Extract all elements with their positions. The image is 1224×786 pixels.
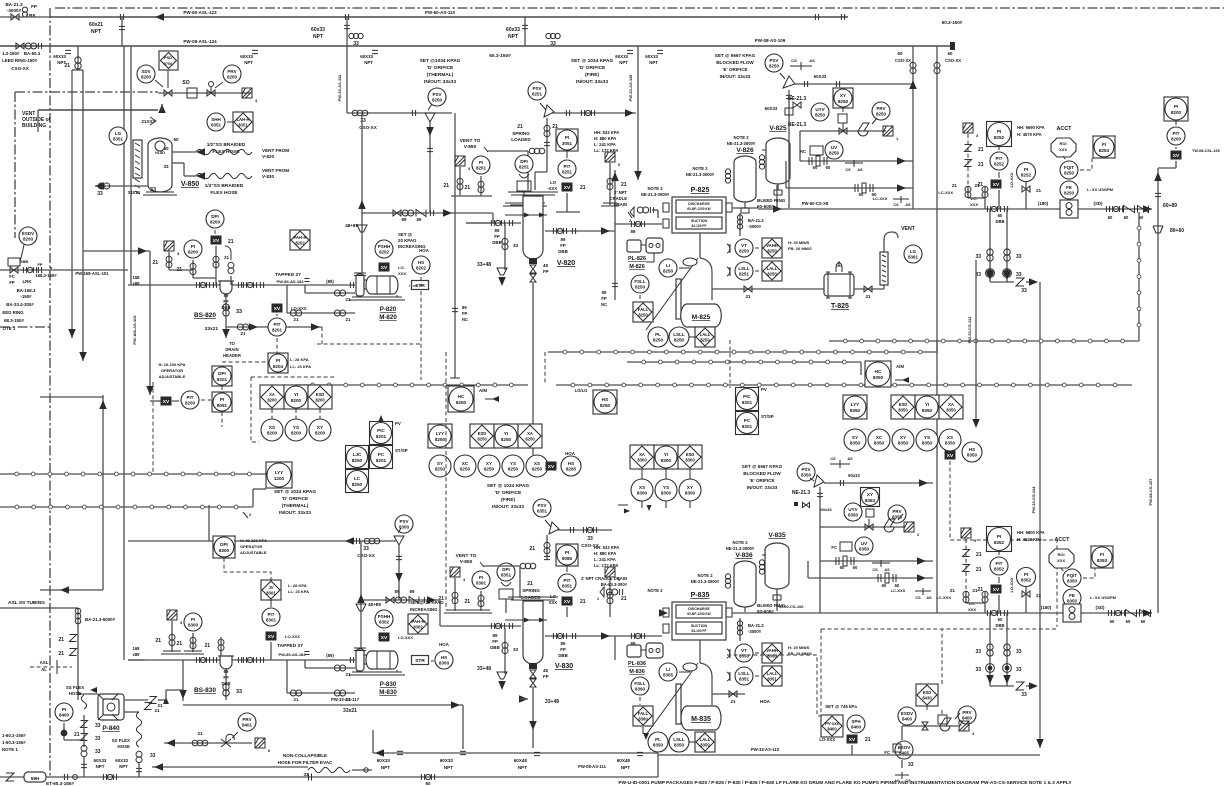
- instrument YS-8300: [655, 479, 677, 501]
- svg-text:LALL: LALL: [700, 737, 711, 742]
- wire vertical x83: [82, 70, 84, 361]
- svg-text:V-820: V-820: [557, 260, 575, 267]
- svg-text:21: 21: [154, 708, 160, 713]
- svg-text:8350: 8350: [850, 408, 861, 413]
- instrument UV-8250: [825, 141, 843, 159]
- svg-text:33: 33: [97, 191, 103, 197]
- svg-text:33+48: 33+48: [477, 666, 491, 672]
- instrument PIT-8252: [990, 152, 1008, 170]
- svg-text:XY: XY: [687, 485, 693, 490]
- instrument PIT-8201: [268, 318, 286, 336]
- svg-text:BA-60.3: BA-60.3: [24, 51, 41, 56]
- svg-text:L: XX USGPM: L: XX USGPM: [1087, 187, 1114, 192]
- svg-text:V-850: V-850: [464, 144, 477, 150]
- svg-text:60: 60: [425, 781, 431, 786]
- instrument SY-8350: [844, 429, 866, 451]
- svg-text:21: 21: [580, 599, 586, 605]
- svg-text:XS: XS: [534, 461, 540, 466]
- svg-text:8400: 8400: [59, 713, 70, 718]
- svg-text:•: •: [50, 266, 52, 272]
- svg-text:HH: 6690 KPA: HH: 6690 KPA: [1017, 125, 1045, 130]
- svg-text:8393: 8393: [1097, 558, 1108, 563]
- svg-text:SET @ 745 kPa: SET @ 745 kPa: [825, 704, 857, 709]
- svg-text:BLOCKED FLOW: BLOCKED FLOW: [743, 471, 781, 476]
- svg-text:V-830: V-830: [262, 174, 274, 179]
- svg-text:21: 21: [978, 147, 984, 153]
- wire stub left y17: [0, 16, 50, 18]
- svg-text:XXX: XXX: [1057, 558, 1065, 563]
- svg-text:8250: 8250: [829, 151, 840, 156]
- svg-text:SET @ 20 KPAG: SET @ 20 KPAG: [410, 600, 444, 605]
- svg-text:PW-33-AS-112: PW-33-AS-112: [337, 74, 342, 102]
- svg-text:PW-60-CS-X8: PW-60-CS-X8: [802, 201, 829, 206]
- checks NN y613: [1126, 610, 1137, 617]
- svg-text:8250: 8250: [435, 467, 446, 472]
- svg-text:8200: 8200: [315, 431, 326, 436]
- fitting NPT tick: [627, 50, 633, 53]
- svg-text:89: 89: [631, 229, 636, 234]
- wire vertical x72: [71, 70, 73, 338]
- svg-text:ET-60.3-150#: ET-60.3-150#: [46, 781, 74, 786]
- svg-text:60X33: 60X33: [360, 54, 373, 59]
- svg-text:5706: 5706: [164, 62, 172, 66]
- svg-text:89: 89: [602, 290, 607, 295]
- svg-text:TAPPED 27: TAPPED 27: [277, 643, 303, 649]
- svg-text:LOADED: LOADED: [511, 137, 531, 142]
- svg-text:XXX: XXX: [970, 202, 978, 207]
- svg-text:LO-XXX: LO-XXX: [1009, 172, 1014, 187]
- svg-text:PI: PI: [220, 397, 224, 402]
- svg-text:21: 21: [58, 651, 64, 657]
- svg-text:NON-COLLAPSIBLE: NON-COLLAPSIBLE: [283, 753, 327, 758]
- pipe vertical PW-33-AS-115: [637, 46, 639, 180]
- svg-text:21: 21: [621, 182, 627, 188]
- svg-text:33x21: 33x21: [205, 326, 219, 332]
- svg-text:PW-168-ASL-101: PW-168-ASL-101: [75, 271, 109, 276]
- instrument HC-8250: [448, 386, 474, 412]
- svg-text:PW-33-AS-110: PW-33-AS-110: [751, 747, 780, 752]
- svg-text:8252: 8252: [994, 162, 1005, 167]
- pump recirc lines: [305, 667, 355, 669]
- svg-text:FP: FP: [543, 674, 549, 679]
- svg-text:33: 33: [1016, 272, 1022, 278]
- svg-text:SS FLEX: SS FLEX: [112, 738, 130, 743]
- svg-text:LO/LG: LO/LG: [575, 388, 588, 393]
- pipe vertical x455 NC: [454, 113, 456, 378]
- svg-text:AS: AS: [884, 568, 890, 572]
- svg-text:VENT TO: VENT TO: [460, 138, 481, 144]
- svg-text:XV: XV: [993, 182, 1000, 188]
- svg-text:NPT: NPT: [91, 29, 101, 35]
- svg-text:8351: 8351: [113, 137, 124, 142]
- svg-text:V-850: V-850: [460, 559, 473, 565]
- svg-text:H: 4520 KPA: H: 4520 KPA: [1017, 537, 1042, 542]
- pipe PRV-8401 line y743: [164, 742, 252, 744]
- svg-text:21: 21: [152, 260, 158, 266]
- svg-text:60.3-150#: 60.3-150#: [942, 20, 963, 25]
- svg-text:PL-836: PL-836: [628, 661, 646, 667]
- svg-text:x89: x89: [133, 281, 141, 286]
- svg-text:60X48: 60X48: [617, 758, 631, 763]
- svg-text:8201: 8201: [376, 434, 387, 439]
- svg-text:L: XX USGPM: L: XX USGPM: [1090, 595, 1117, 600]
- wire dash-dot stub left y327: [0, 326, 50, 328]
- svg-text:PW-08-ASL-124: PW-08-ASL-124: [183, 39, 217, 44]
- svg-text:60x33: 60x33: [506, 27, 520, 33]
- wire riser x209: [208, 505, 210, 541]
- fitting funnel 89+60: [1153, 226, 1163, 233]
- svg-text:XY: XY: [486, 461, 492, 466]
- svg-text:V-836: V-836: [735, 552, 753, 559]
- instrument LSLL-8251: [735, 262, 753, 280]
- svg-text:-3000#: -3000#: [748, 629, 762, 634]
- svg-text:8350: 8350: [946, 408, 956, 413]
- svg-text:DPI: DPI: [520, 159, 528, 164]
- svg-text:NE-21.3-3000#: NE-21.3-3000#: [727, 141, 756, 146]
- instrument ESD-8430: [916, 684, 938, 706]
- svg-text:21: 21: [224, 255, 230, 260]
- svg-text:48+89: 48+89: [345, 223, 358, 228]
- svg-text:NOTE 2: NOTE 2: [732, 540, 748, 545]
- instrument FE-8350: [1063, 589, 1081, 607]
- svg-text:XV: XV: [564, 185, 571, 191]
- svg-text:21: 21: [745, 294, 751, 299]
- svg-text:XV: XV: [213, 238, 220, 244]
- svg-text:XV: XV: [381, 635, 388, 641]
- svg-text:FP: FP: [560, 243, 566, 248]
- vessel V-825: [766, 138, 790, 184]
- instrument PRV-8200: [223, 65, 241, 83]
- svg-text:21: 21: [952, 183, 958, 188]
- svg-text:8300: 8300: [188, 623, 199, 628]
- svg-text:OPERATOR: OPERATOR: [240, 544, 262, 549]
- valve control PRV-8401: [221, 734, 234, 747]
- pipe bottom ET line y777: [0, 776, 658, 778]
- svg-text:(FIRE): (FIRE): [501, 497, 516, 503]
- svg-text:NOTE 1: NOTE 1: [2, 747, 18, 752]
- svg-text:8250: 8250: [674, 338, 685, 343]
- gauge column right: [880, 252, 888, 285]
- svg-text:PRV: PRV: [242, 717, 251, 722]
- svg-text:21: 21: [346, 697, 351, 702]
- pipe PSV-8351 riser: [546, 535, 548, 560]
- svg-text:SHH: SHH: [211, 117, 221, 122]
- svg-text:XA: XA: [269, 392, 275, 397]
- svg-text:89: 89: [493, 633, 498, 638]
- svg-text:60.3-150#: 60.3-150#: [489, 53, 511, 59]
- svg-text:33: 33: [150, 187, 156, 193]
- svg-text:8265: 8265: [566, 467, 577, 472]
- svg-text:8400: 8400: [851, 725, 862, 730]
- svg-text:21: 21: [346, 297, 351, 302]
- svg-text:8300: 8300: [637, 458, 647, 463]
- svg-text:P-830: P-830: [380, 681, 397, 688]
- svg-text:'D' ORIFICE: 'D' ORIFICE: [282, 496, 309, 502]
- valve angle PSV-8350: [814, 475, 824, 487]
- fitting V-820 bottom: [529, 258, 537, 264]
- svg-text:21: 21: [176, 641, 182, 647]
- pipe bottom PW-33-AS-110 y755: [658, 754, 1040, 756]
- svg-text:LYY: LYY: [275, 470, 284, 475]
- svg-text:21: 21: [197, 731, 203, 736]
- svg-text:21: 21: [950, 588, 956, 593]
- pipe P-825 discharge right: [726, 203, 732, 212]
- fitting drain funnel 33+48 b: [504, 628, 506, 674]
- svg-text:9085: 9085: [562, 556, 573, 561]
- level bridle: [676, 279, 681, 319]
- svg-text:IN/OUT: 33x33: IN/OUT: 33x33: [492, 504, 524, 510]
- valve control pair y527: [826, 526, 904, 528]
- svg-text:21: 21: [974, 183, 980, 188]
- pipe V-830 right nozzle: [545, 635, 615, 637]
- pipe vertical x615: [614, 170, 616, 224]
- svg-text:FE: FE: [1069, 593, 1075, 598]
- svg-text:ST/SP: ST/SP: [395, 448, 408, 453]
- svg-text:8352: 8352: [1021, 578, 1032, 583]
- instrument PI-8391: [472, 571, 490, 589]
- svg-text:FQIT: FQIT: [1067, 573, 1077, 578]
- instrument YS-8250: [502, 455, 524, 477]
- svg-text:NPT: NPT: [619, 60, 628, 65]
- svg-text:68.3-150#: 68.3-150#: [4, 318, 24, 323]
- svg-text:BA-33.4-300#: BA-33.4-300#: [6, 302, 34, 307]
- svg-text:60: 60: [813, 165, 818, 170]
- svg-text:NPT: NPT: [508, 34, 518, 40]
- svg-text:8251: 8251: [562, 170, 573, 175]
- svg-text:8391: 8391: [476, 581, 487, 586]
- svg-text:FQIT: FQIT: [1064, 165, 1074, 170]
- svg-text:YI: YI: [664, 452, 668, 457]
- svg-text:33: 33: [163, 164, 169, 169]
- svg-text:8250: 8250: [484, 467, 495, 472]
- instrument PSV-8250: [765, 54, 783, 72]
- svg-text:CRADLE: CRADLE: [610, 196, 628, 201]
- instrument PIT-8200: [181, 391, 199, 409]
- svg-text:PW-U-ID-0001 PUMP PACKAGES: PW-U-ID-0001 PUMP PACKAGES P-820 / P-825…: [618, 780, 1072, 786]
- instrument VT-8250: [735, 239, 753, 257]
- svg-text:'E' ORIFICE: 'E' ORIFICE: [722, 67, 747, 72]
- instrument XY-8200: [309, 419, 331, 441]
- svg-text:SET @: SET @: [398, 232, 413, 237]
- instrument PI-8352: [1017, 568, 1036, 587]
- svg-text:SET @ 6667 KPAG: SET @ 6667 KPAG: [742, 464, 783, 469]
- svg-text:83-600#: 83-600#: [757, 609, 774, 614]
- instrument FSLL-8250: [631, 275, 649, 293]
- motor M-825: [681, 304, 722, 327]
- instrument PSD-5706 box: [159, 51, 178, 70]
- svg-text:8250: 8250: [1064, 171, 1075, 176]
- wire slanted level tap b: [646, 663, 698, 735]
- instrument PC-8201: [370, 446, 393, 469]
- svg-text:ESD: ESD: [478, 431, 487, 436]
- svg-text:8201: 8201: [217, 377, 228, 382]
- svg-text:DISCHARGE: DISCHARGE: [688, 607, 710, 611]
- svg-text:NC: NC: [601, 302, 607, 307]
- svg-text:33: 33: [150, 753, 156, 759]
- svg-text:XC: XC: [876, 435, 883, 440]
- svg-text:PV: PV: [395, 421, 401, 426]
- svg-text:AS: AS: [847, 457, 853, 461]
- svg-text:H: 25 MM/S: H: 25 MM/S: [788, 240, 810, 245]
- instrument PI-8252: [987, 122, 1012, 147]
- svg-text:FP: FP: [462, 311, 468, 316]
- pipe discharge into V-830: [361, 599, 440, 601]
- svg-text:HS: HS: [568, 461, 574, 466]
- instrument ESD-8250: [470, 424, 494, 448]
- wire x913 to top: [912, 46, 914, 209]
- svg-text:XV: XV: [381, 265, 388, 271]
- svg-text:8250: 8250: [638, 313, 648, 318]
- svg-text:(89): (89): [326, 653, 334, 658]
- valve stacks LC-XXX bottom: [965, 591, 967, 603]
- wire drain V-850: [95, 185, 148, 187]
- instrument FQIT-8350: [1063, 569, 1081, 587]
- wire dash-dot battery limit top: [55, 7, 1224, 9]
- svg-text:ESDV: ESDV: [22, 231, 34, 236]
- svg-text:HOSE: HOSE: [69, 691, 82, 696]
- svg-text:PC: PC: [744, 418, 751, 423]
- svg-text:XXX: XXX: [398, 271, 406, 276]
- svg-text:DBB: DBB: [492, 240, 502, 245]
- svg-text:21: 21: [294, 697, 299, 702]
- svg-text:8350: 8350: [739, 654, 750, 659]
- pipe from tween: [128, 659, 145, 661]
- wire slanted level tap: [646, 258, 698, 330]
- instrument PRV-8250: [872, 102, 890, 120]
- svg-text:21: 21: [74, 732, 80, 738]
- svg-text:8250: 8250: [767, 272, 777, 277]
- svg-text:33: 33: [1016, 254, 1022, 260]
- svg-text:8200: 8200: [210, 220, 221, 225]
- svg-text:8200: 8200: [1171, 110, 1182, 115]
- wire feed verticals x124 x131: [123, 46, 125, 660]
- svg-text:M-835: M-835: [691, 716, 711, 723]
- wire hose filter evac: [152, 766, 308, 768]
- fitting V-830 bottom: [529, 663, 537, 669]
- svg-text:VENT FROM: VENT FROM: [262, 168, 289, 173]
- pipe V-820 bottom drop: [532, 283, 534, 455]
- fitting orifice y613: [1063, 604, 1081, 622]
- instrument PI-8252: [1017, 163, 1036, 182]
- vessel V-850: [148, 138, 172, 192]
- svg-text:PAH-H: PAH-H: [294, 235, 307, 240]
- pipe header PW-60-CS-X8 y209: [758, 208, 1152, 210]
- svg-text:8351: 8351: [537, 509, 548, 514]
- svg-text:8351: 8351: [739, 677, 750, 682]
- drain diamond left of PI: [455, 156, 471, 171]
- wire P-840 suction drops: [81, 721, 88, 728]
- pipe feed PW-168-ASL-101 y270: [0, 269, 128, 271]
- valve ESDV body: [10, 267, 18, 273]
- svg-text:TW-08-CSL-165: TW-08-CSL-165: [1192, 149, 1220, 153]
- svg-text:XV: XV: [564, 599, 571, 605]
- svg-text:8251: 8251: [476, 166, 487, 171]
- pipe bottom manifold y753: [373, 752, 658, 754]
- svg-text:DISCHARGE: DISCHARGE: [688, 202, 710, 206]
- svg-text:8253: 8253: [1099, 148, 1110, 153]
- instrument XA-8300: [630, 445, 654, 469]
- svg-text:8200: 8200: [267, 398, 277, 403]
- valve stack below bleed ring: [739, 213, 741, 236]
- svg-text:ADJUSTABLE: ADJUSTABLE: [159, 374, 186, 379]
- svg-text:3051: 3051: [562, 141, 573, 146]
- svg-text:(180): (180): [1041, 605, 1052, 610]
- svg-text:8250: 8250: [435, 437, 446, 442]
- svg-text:V-835: V-835: [768, 532, 786, 539]
- svg-text:8200: 8200: [227, 75, 238, 80]
- svg-text:CSO-XX: CSO-XX: [945, 58, 961, 63]
- svg-text:NPT: NPT: [313, 34, 323, 40]
- instrument SY-8250: [429, 455, 451, 477]
- valve stack below BS-830: [225, 668, 227, 700]
- svg-text:PIT: PIT: [995, 156, 1002, 161]
- svg-text:8350: 8350: [873, 375, 884, 380]
- drain diamond left b: [450, 567, 466, 582]
- svg-text:33: 33: [303, 772, 309, 777]
- valve XV-8301: [266, 632, 277, 641]
- instrument PSV-8250: [428, 88, 446, 106]
- svg-text:HH: 533 KPA: HH: 533 KPA: [594, 130, 619, 135]
- pipe V-830 left nozzle: [466, 625, 521, 627]
- svg-text:8355: 8355: [663, 673, 674, 678]
- svg-text:VAHH: VAHH: [766, 243, 778, 248]
- drain diamond y93: [242, 88, 258, 103]
- zigzag 21 mid left: [145, 703, 152, 710]
- svg-text:XV: XV: [274, 306, 281, 312]
- svg-text:33: 33: [363, 546, 369, 552]
- svg-text:VAHH: VAHH: [766, 648, 778, 653]
- svg-text:FC: FC: [831, 545, 837, 550]
- svg-text:8250: 8250: [769, 64, 780, 69]
- svg-text:VENT FROM: VENT FROM: [262, 148, 289, 153]
- svg-text:FP: FP: [494, 234, 500, 239]
- drain diamond right: [605, 152, 621, 167]
- svg-text:1/2"SS BRAIDED: 1/2"SS BRAIDED: [207, 142, 246, 148]
- svg-text:8200: 8200: [291, 398, 302, 403]
- svg-text:FP: FP: [9, 280, 15, 285]
- pipe suction P-825: [615, 223, 662, 225]
- instrument LSLL-8350: [669, 732, 689, 752]
- svg-text:IN/OUT: 33x33: IN/OUT: 33x33: [279, 510, 311, 516]
- svg-text:48+89: 48+89: [368, 602, 381, 607]
- svg-text:LC-XXX: LC-XXX: [873, 196, 888, 201]
- svg-text:ACCT: ACCT: [1057, 126, 1073, 132]
- svg-text:PI: PI: [1024, 572, 1028, 577]
- svg-text:8250: 8250: [767, 249, 777, 254]
- svg-text:60X33: 60X33: [115, 758, 128, 763]
- svg-text:-150#: -150#: [20, 294, 32, 299]
- svg-text:(SD): (SD): [1095, 605, 1105, 610]
- svg-text:33: 33: [236, 309, 242, 315]
- svg-text:YI: YI: [925, 402, 929, 407]
- svg-text:1-60.3-150#: 1-60.3-150#: [2, 740, 26, 745]
- instrument XS-8350: [939, 429, 961, 451]
- svg-text:-3000#: -3000#: [748, 224, 762, 229]
- svg-text:NE-21.3: NE-21.3: [788, 96, 807, 102]
- wire dashed to PI-8204: [222, 361, 268, 363]
- svg-text:33: 33: [975, 649, 981, 655]
- svg-text:DPI: DPI: [502, 567, 510, 572]
- instrument YS-8200: [285, 419, 307, 441]
- svg-text:XY: XY: [317, 425, 323, 430]
- svg-text:89: 89: [402, 217, 407, 222]
- svg-text:L: 28 KPA: L: 28 KPA: [288, 583, 307, 588]
- svg-text:IN/OUT: 33x33: IN/OUT: 33x33: [720, 74, 751, 79]
- svg-text:60x33: 60x33: [848, 473, 860, 478]
- fitting NPT tick bottom: [397, 751, 403, 754]
- instrument FI-8393: [1091, 546, 1113, 568]
- svg-text:8300: 8300: [685, 458, 695, 463]
